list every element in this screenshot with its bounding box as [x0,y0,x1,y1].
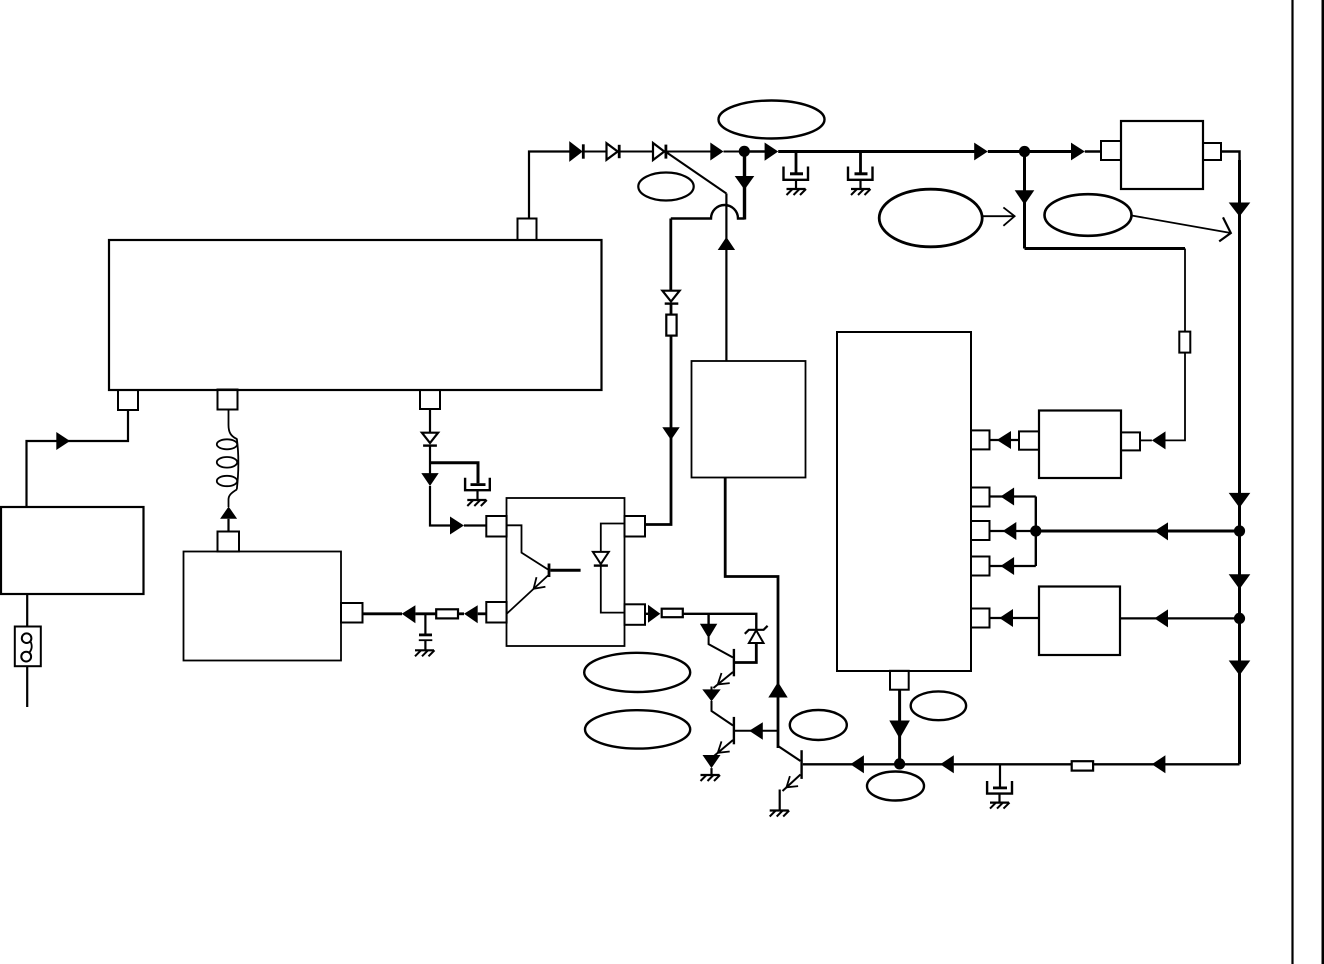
wire opto right-bottom out [645,613,648,615]
diagonal wire from D3 cathode [666,152,726,194]
wire into opto pin [478,612,487,615]
pin U2 left-bottom [486,602,506,623]
ground for Q2 [701,775,721,781]
pin U5 right [1121,432,1140,450]
branch wire to capacitor C3 [430,463,478,484]
wire U3 bottom to Q-chain [725,478,778,749]
capacitor C5 to ground (bottom rail) [987,764,1012,802]
wire row D [990,565,1036,567]
arrow down on Q1 collector branch [700,614,717,638]
wire from J2 down [1023,152,1026,249]
page right edge line [1322,0,1324,964]
ellipse note E9 [911,691,966,720]
arrow up into coil [220,507,237,519]
ellipse note E2 (below diode D3) [638,173,693,201]
pin U6-C [971,521,990,540]
wire [464,524,486,526]
pin P2 (U1 bottom-middle pin) [218,390,238,410]
arrow left into U6-C [1003,522,1017,540]
wire U6 bottom pin down [898,690,901,764]
pin U6 bottom [890,671,909,690]
diode D6 (opto LED) [593,524,625,613]
wire top rail to arrow [667,151,711,153]
ground for Q3 [770,811,790,817]
pin T1 (U1 top pin) [518,219,537,241]
arrow left into U6-A [997,431,1011,449]
ellipse note E6 [585,710,690,748]
transistor Q3 [778,746,802,791]
diode D4 (down) [422,433,438,446]
bus vertical B-C-D [1035,497,1037,567]
wire hop (crossover) [671,205,745,219]
wire [1140,439,1152,441]
arrow left on Q2 base [749,722,763,740]
wire Q3 emitter to ground [779,790,781,811]
wire [585,151,606,153]
pin U6-B [971,488,990,507]
pin P3 (U1 bottom-right pin) [420,390,440,409]
block U6 (big right box) [837,332,971,671]
arrow left on row E right [1154,609,1168,627]
capacitor C4 to ground (motor line) [419,614,433,650]
ellipse note E3 with arrow [879,189,1014,247]
wire U1 pin P3 down [429,409,431,433]
ground for C1 [787,189,807,195]
arrow left on row C thick wire [1154,522,1168,540]
wire [1085,150,1101,152]
resistor R3 [662,609,683,618]
arrow up on Q-chain supply [768,682,787,698]
inductor L1 (coil from U1 pin P2) [217,409,239,507]
wire [1025,150,1072,153]
page right border [1291,0,1293,964]
main bus vertical (right) [1238,160,1241,764]
capacitor C1 to ground on top rail [784,152,809,188]
resistor R1 [666,315,676,336]
wire from U1 top pin to top rail [529,152,570,219]
arrow left on bottom rail [940,755,954,773]
node J1 (junction dot) [739,146,750,157]
pin U2 right-top [625,516,646,537]
ellipse note E8 [867,772,924,801]
wire [429,446,431,474]
arrow down on main bus below JX2 [1229,661,1251,676]
wire R4 down and left to U5 [1165,353,1185,441]
block U3 (mid box) [692,361,806,478]
resistor R2 [436,609,458,618]
arrow left on bottom rail right [1152,755,1166,773]
wire coil arrow to motor pin [227,519,229,532]
ellipse note E5 [584,653,690,692]
arrow left into U6-E [999,609,1013,627]
node JB (junction dot bottom rail) [894,758,905,769]
arrow down Q2 emitter [703,755,721,775]
block U1 (main controller, top-left) [109,240,602,390]
node J2 (junction dot) [1019,146,1030,157]
node JX2 (junction dot on main bus) [1234,613,1245,624]
wire corner to opto [430,486,450,526]
arrow right on top rail [974,143,988,161]
block U5 (right upper box) [1039,411,1121,479]
ellipse note E4 with leader arrow to bus [1045,194,1231,241]
arrow right on battery wire [56,432,70,450]
ground for C3 [467,500,487,506]
wire [724,151,745,153]
resistor R5 [1072,761,1093,770]
capacitor C2 to ground on top rail [848,152,873,188]
pin M1 top [218,532,240,552]
wire row E right to main bus [1120,617,1240,619]
wire [415,612,436,615]
ground for C4 [415,650,435,656]
wire vertical into block U3 [725,194,727,362]
wire [458,612,464,615]
arrow left into U5 right pin [1152,431,1166,449]
block U2 (optocoupler) [507,498,625,646]
arrow down Q1 to Q2 [702,689,720,701]
wire [670,304,673,315]
bottom rail wire [803,763,1240,765]
arrow left toward resistor R2 [464,605,478,623]
diode D1 (filled) on top rail [570,143,583,161]
arrow up on U3 input wire [718,237,735,250]
arrow left toward motor [402,605,416,623]
arrow right into filter box [1071,143,1085,161]
pin U6-E [971,609,990,628]
diode D3 on top rail [653,143,666,160]
wire to zener corner [683,614,757,629]
diode D5 (down) [662,291,679,304]
wire down to opto right-top pin [645,336,671,525]
wire Q2 base to supply [735,730,778,732]
transistor Q2 [712,701,734,757]
arrow down on main bus above JX1 [1229,493,1251,508]
wire Q1 emitter down [711,687,713,691]
zener diode Z1 [735,626,768,663]
arrow right on top rail [710,143,723,161]
wire U4 right pin to main bus corner [1221,152,1240,166]
arrow right on top rail [765,143,779,161]
wire down to resistor R4 [1184,249,1186,333]
pin U6-D [971,557,990,576]
wire [621,151,653,153]
arrow down below J1 [735,176,755,190]
wire row E left [990,617,1040,619]
wire row A [990,439,1020,441]
wire [988,150,1025,153]
wire corner to resistor branch [1025,247,1186,250]
transistor Q4 (opto phototransistor) [507,525,581,613]
wire from J1 down [743,152,746,220]
pin P1 (U1 bottom-left pin) [118,390,138,410]
arrow down on U6 bottom wire [889,721,910,739]
pin U4 left [1101,141,1121,160]
wire [745,150,766,152]
wire row B [990,495,1036,497]
pin M1 right [341,603,363,623]
arrow down on P3 chain [421,473,438,486]
arrow down on main bus [1229,203,1251,217]
thick wire row C to main bus [1036,530,1240,533]
pin U6-A [971,430,990,449]
transistor Q1 [709,637,734,688]
wire battery to U1 pin P1 [27,410,129,507]
connector CN1 (plug below battery) [15,594,41,707]
wire row C [990,530,1036,532]
arrow left into U6-D [1001,557,1015,575]
arrow left on bottom rail toward Q3 [850,755,864,773]
pin U4 right [1203,143,1221,160]
block U7 (right lower box) [1039,587,1120,656]
arrow right into opto pin [450,517,464,535]
diode D2 on top rail [607,143,620,160]
pin U5 left [1019,431,1039,449]
pin U2 left-top [486,516,506,537]
node JX1 (junction dot on main bus) [1234,525,1245,536]
ground for C5 [990,803,1010,809]
arrow down on regulator chain [662,427,679,440]
ellipse note E1 (above top rail) [719,101,825,139]
arrow down below J2 [1015,190,1035,204]
wire motor pin right [363,612,403,615]
pin U2 right-bottom [625,604,646,625]
wire top rail thick run [778,150,974,153]
resistor R4 [1179,332,1190,353]
block B1 (battery, bottom-left) [1,507,144,594]
block U4 (top-right box) [1121,121,1203,189]
capacitor C3 to ground [465,478,490,500]
arrow right from opto [648,605,660,623]
ellipse note E7 [790,710,847,740]
wire corner down (regulator chain) [669,219,672,291]
block M1 (motor, bottom-left middle) [184,552,342,661]
arrow down on main bus above JX2 [1229,574,1251,589]
arrow left into U6-B [1001,488,1015,506]
ground for C2 [851,189,871,195]
node JC (junction dot row C) [1030,525,1041,536]
